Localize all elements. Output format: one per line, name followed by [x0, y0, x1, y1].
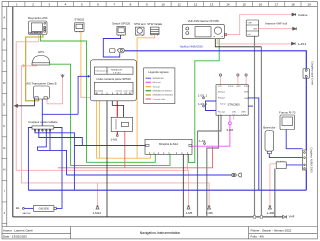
svg-text:Minipilot E-S2A: Minipilot E-S2A [159, 142, 178, 146]
svg-text:Relay2: Relay2 [218, 98, 226, 100]
svg-text:13: 13 [210, 3, 214, 7]
svg-text:ant: ant [248, 33, 251, 36]
svg-text:STW Initiale: STW Initiale [147, 22, 163, 26]
svg-text:5-D8: 5-D8 [227, 128, 234, 132]
svg-text:4.8 kBd: 4.8 kBd [113, 72, 121, 74]
svg-text:+ ▾: + ▾ [218, 113, 221, 116]
svg-text:GALV500: GALV500 [22, 212, 31, 215]
svg-text:AIS: AIS [254, 28, 258, 31]
svg-text:Cabine: Cabine [298, 13, 308, 17]
svg-text:1-D1.1: 1-D1.1 [198, 94, 207, 98]
svg-text:VHF: VHF [248, 23, 253, 25]
svg-text:NMEA0183: NMEA0183 [111, 69, 123, 72]
svg-text:1-M6: 1-M6 [206, 211, 213, 215]
svg-text:VHF ASN Navicom RT-550: VHF ASN Navicom RT-550 [188, 19, 220, 23]
svg-text:1-A9: 1-A9 [199, 139, 206, 143]
svg-text:Auteur : Laurent Carré: Auteur : Laurent Carré [3, 229, 33, 233]
svg-text:15: 15 [243, 3, 247, 7]
svg-text:1-M1: 1-M1 [111, 138, 118, 142]
svg-text:12V: 12V [218, 86, 222, 88]
svg-text:Switch GPS20: Switch GPS20 [112, 22, 130, 26]
svg-text:12: 12 [194, 3, 198, 7]
svg-text:ST6002: ST6002 [74, 18, 84, 22]
svg-text:D/A: D/A [232, 111, 236, 114]
svg-text:10: 10 [161, 3, 165, 7]
svg-text:Serial: Serial [220, 103, 226, 106]
svg-text:Antenne VHF hull: Antenne VHF hull [265, 22, 287, 26]
svg-text:NMEA0183 38400bd: NMEA0183 38400bd [153, 94, 174, 97]
svg-text:VHF: VHF [289, 214, 295, 218]
svg-text:USB: USB [241, 112, 246, 114]
svg-text:NavBus NMEA2000: NavBus NMEA2000 [180, 45, 204, 49]
svg-text:GPS: GPS [236, 86, 241, 88]
svg-text:1+M8: 1+M8 [267, 211, 275, 215]
svg-text:NMEA2000: NMEA2000 [153, 77, 165, 80]
svg-text:STLK: STLK [244, 86, 250, 88]
svg-text:Date : 13/02/2023: Date : 13/02/2023 [3, 235, 27, 239]
svg-text:+ -: + - [116, 93, 119, 95]
svg-text:Recept: Recept [218, 111, 225, 114]
svg-text:Légende signaux: Légende signaux [148, 70, 169, 74]
svg-text:16: 16 [259, 3, 263, 7]
svg-text:1-D1.1: 1-D1.1 [198, 102, 207, 106]
svg-text:Unité contacts pilote SP510: Unité contacts pilote SP510 [96, 77, 131, 81]
svg-text:18: 18 [291, 3, 295, 7]
svg-text:B: B [3, 37, 5, 41]
svg-text:STNC800: STNC800 [227, 103, 240, 107]
svg-text:H: H [3, 168, 5, 172]
svg-text:GND: GND [244, 98, 249, 100]
svg-text:1-M12: 1-M12 [93, 211, 102, 215]
svg-text:17: 17 [275, 3, 279, 7]
svg-text:Furuno FI-70: Furuno FI-70 [279, 111, 296, 115]
svg-text:Coaxial radio: Coaxial radio [153, 98, 167, 101]
svg-text:14: 14 [226, 3, 230, 7]
svg-text:E1: E1 [16, 206, 20, 210]
svg-text:Coupleur unités tablette: Coupleur unités tablette [28, 120, 58, 124]
svg-text:Infrastructure: Infrastructure [96, 70, 110, 73]
svg-text:GALV500: GALV500 [39, 208, 50, 211]
svg-text:Relay1: Relay1 [218, 92, 226, 94]
svg-text:Folio : 4/6: Folio : 4/6 [251, 235, 265, 239]
svg-text:Coupleur NMEA 2000: Coupleur NMEA 2000 [310, 147, 314, 173]
svg-text:1+P12: 1+P12 [298, 42, 307, 46]
svg-text:STLK: STLK [228, 86, 234, 88]
svg-text:Raymarine A50: Raymarine A50 [28, 16, 48, 20]
svg-text:A: A [3, 16, 5, 20]
svg-text:F: F [3, 124, 5, 128]
svg-text:Fichier : Swann - Version 2022: Fichier : Swann - Version 2022 [251, 229, 292, 233]
svg-text:Ethernet: Ethernet [153, 81, 162, 84]
svg-text:1 2 3: 1 2 3 [241, 114, 247, 116]
svg-text:DMC: DMC [244, 92, 249, 94]
svg-text:AIS Transceiver Class B: AIS Transceiver Class B [26, 82, 56, 86]
svg-text:Barre/olie: Barre/olie [263, 126, 275, 130]
svg-text:GPS: GPS [38, 50, 44, 54]
svg-text:Seatalk: Seatalk [153, 85, 161, 88]
svg-text:1-M5: 1-M5 [186, 211, 193, 215]
svg-text:E: E [3, 103, 5, 107]
svg-text:Navigation-Instrumentation: Navigation-Instrumentation [140, 231, 181, 235]
svg-text:Coupleur quai & mer: Coupleur quai & mer [311, 61, 315, 85]
svg-text:11: 11 [178, 3, 181, 7]
svg-text:STW anti: STW anti [134, 22, 146, 26]
svg-text:NMEA0183 4800bd: NMEA0183 4800bd [153, 90, 173, 93]
svg-text:I: I [4, 189, 5, 193]
svg-text:19: 19 [307, 3, 311, 7]
